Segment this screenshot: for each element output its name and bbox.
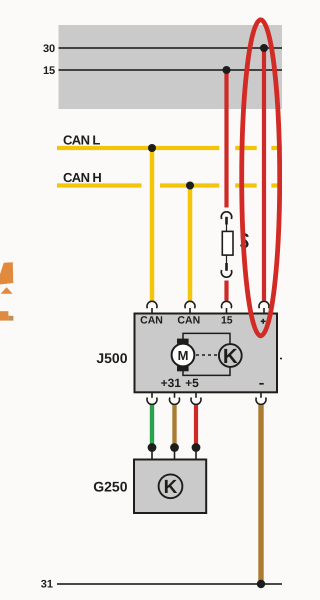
wire terminal 30 — [59, 47, 283, 49]
wire terminal 15 to fuse — [224, 70, 228, 208]
node on terminal 30 — [260, 44, 268, 52]
wire CAN L — [57, 146, 282, 150]
svg-text:15: 15 — [221, 315, 233, 327]
logo fragment bar — [0, 311, 8, 320]
wire minus to terminal 31 — [258, 405, 263, 584]
motor M circle — [172, 344, 195, 367]
wire CAN H vertical — [188, 186, 193, 302]
terminal +5 bottom — [170, 392, 180, 404]
terminal CAN 2 top — [185, 301, 195, 313]
node on terminal 15 — [223, 66, 231, 74]
fuse body — [222, 231, 233, 255]
pin label plus — [261, 319, 266, 324]
lead brown to G250 — [174, 450, 176, 459]
linkage outline bottom — [183, 367, 230, 376]
fuse bottom stub — [225, 263, 228, 271]
terminal minus bottom — [256, 392, 266, 404]
logo fragment triangle — [1, 287, 13, 294]
svg-text:CAN H: CAN H — [63, 170, 101, 185]
logo fragment bar step — [8, 316, 13, 321]
svg-text:+31: +31 — [161, 376, 182, 390]
fuse bottom connector arc — [221, 270, 231, 277]
node green — [148, 443, 157, 452]
svg-text:K: K — [223, 345, 238, 368]
fuse top stub — [225, 217, 228, 225]
svg-text:K: K — [164, 477, 178, 498]
fuse top connector arc — [221, 212, 231, 219]
pin label minus — [259, 383, 263, 385]
svg-text:31: 31 — [41, 579, 53, 591]
logo fragment upper — [0, 262, 13, 284]
svg-text:G250: G250 — [93, 479, 127, 495]
terminal +31 bottom — [147, 392, 157, 404]
dashed mechanical link — [196, 354, 219, 356]
terminal plus top — [259, 301, 269, 313]
sensor G250 box — [134, 460, 206, 514]
svg-text:30: 30 — [43, 43, 55, 55]
node on terminal 31 — [257, 580, 265, 588]
wire red signal — [194, 405, 198, 448]
node red — [192, 443, 201, 452]
wire CAN H — [57, 183, 282, 187]
lead red to G250 — [195, 450, 197, 459]
lead green to G250 — [151, 450, 153, 459]
terminal out bottom — [191, 392, 201, 404]
svg-text:M: M — [178, 348, 189, 363]
linkage outline top — [183, 333, 230, 344]
motor M brushes — [177, 339, 189, 344]
wire green +31 — [150, 405, 154, 448]
svg-text:CAN: CAN — [177, 315, 200, 327]
wire brown +5 — [172, 405, 176, 448]
control unit J500 box — [135, 314, 278, 393]
wire stub right edge — [280, 358, 282, 360]
fuse top lead — [226, 224, 228, 231]
fuse label S — [241, 234, 247, 247]
terminal 15 top — [222, 301, 232, 313]
svg-text:J500: J500 — [96, 350, 127, 366]
terminal CAN 1 top — [147, 301, 157, 313]
wire fuse to J500 — [224, 281, 228, 301]
wire terminal 15 — [59, 69, 283, 71]
wire CAN L vertical — [150, 148, 155, 302]
wire terminal 31 — [57, 583, 282, 585]
svg-text:+5: +5 — [185, 376, 199, 390]
svg-text:CAN L: CAN L — [63, 132, 100, 147]
G250 K circle — [159, 474, 183, 498]
node CAN L junction — [148, 144, 156, 152]
node brown — [170, 443, 179, 452]
wire terminal 30 down — [262, 48, 266, 301]
svg-text:CAN: CAN — [140, 315, 163, 327]
bus bar band 30/15 — [59, 25, 283, 109]
node CAN H junction — [186, 182, 194, 190]
svg-text:15: 15 — [43, 65, 55, 77]
highlight ellipse — [242, 20, 280, 336]
electronics K circle — [219, 344, 242, 367]
fuse bottom lead — [226, 255, 228, 263]
